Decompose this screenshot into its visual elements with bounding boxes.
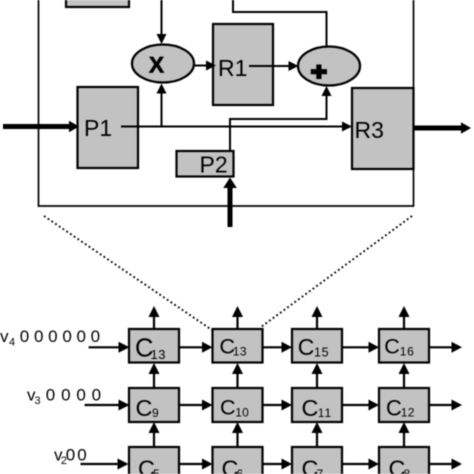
svg-text:C: C — [220, 396, 236, 420]
wire into multiplier from top — [157, 0, 167, 44]
label v4 input sequence — [0, 327, 100, 349]
label v3 input sequence — [27, 386, 102, 408]
svg-text:0: 0 — [77, 446, 86, 465]
output arrow C12 row2 — [429, 400, 462, 411]
cell C9 row2 col1 — [129, 388, 179, 422]
svg-text:0: 0 — [66, 446, 75, 465]
svg-text:12: 12 — [401, 406, 415, 420]
svg-text:P2: P2 — [200, 152, 228, 178]
svg-text:R1: R1 — [218, 55, 247, 81]
svg-text:P1: P1 — [84, 115, 112, 141]
svg-text:10: 10 — [235, 406, 249, 420]
svg-text:0 0 0 0: 0 0 0 0 — [46, 386, 102, 405]
svg-text:C: C — [136, 395, 153, 421]
register R3 — [352, 88, 414, 169]
thick arrow into P2 from below — [223, 178, 237, 228]
adder + ellipse — [298, 47, 360, 86]
wire C6 up to C10 — [232, 422, 243, 447]
svg-text:13: 13 — [233, 345, 247, 359]
wire P1 to R3 — [121, 122, 352, 132]
wire C5 to C6 row3 — [179, 459, 213, 470]
wire C10 to C11 row2 — [263, 400, 293, 411]
thick input arrow into P1 — [3, 121, 79, 133]
output arrow up from C13 col2 — [232, 306, 243, 329]
wire C7 to C8 row3 — [342, 459, 379, 470]
wire C13 to C13 row1 — [179, 342, 213, 353]
output arrow up from C16 — [399, 306, 410, 329]
wire C9 to C10 row2 — [179, 400, 213, 411]
wire C6 to C7 row3 — [263, 459, 293, 470]
small box top-left (cut off at top) — [66, 0, 129, 7]
cell C13 row1 col1 — [129, 329, 179, 363]
cell C15 row1 col3 — [292, 329, 342, 363]
wire C11 to C12 row2 — [342, 400, 379, 411]
cell C11 row2 col3 — [292, 388, 342, 422]
svg-text:8: 8 — [404, 467, 411, 474]
svg-text:C: C — [302, 395, 319, 421]
svg-text:5: 5 — [153, 467, 160, 474]
register R1 — [213, 24, 273, 105]
svg-text:C: C — [386, 396, 402, 421]
svg-text:9: 9 — [152, 406, 159, 420]
output arrow C8 row3 — [429, 459, 462, 470]
svg-text:v: v — [0, 327, 9, 346]
svg-text:3: 3 — [35, 395, 41, 407]
wire P2 up to adder bottom — [230, 86, 332, 151]
dotted expansion line left — [44, 216, 212, 330]
feedback wire from top into adder — [233, 0, 327, 47]
wire C15 to C16 row1 — [342, 342, 379, 353]
cell C6 row3 col2 — [213, 447, 263, 474]
multiplier X ellipse — [132, 45, 194, 83]
outer frame of processing element — [39, 0, 414, 206]
cell C10 row2 col2 — [213, 388, 263, 422]
output arrow up from C15 — [312, 306, 323, 329]
wire C5 up to C9 — [149, 422, 160, 447]
svg-text:C: C — [384, 335, 400, 359]
svg-text:6: 6 — [237, 467, 244, 474]
wire C11 up to C15 — [312, 363, 323, 388]
svg-text:7: 7 — [317, 467, 324, 474]
wire C10 up to C13 — [232, 363, 243, 388]
input arrow v2 row3 — [81, 459, 129, 470]
svg-text:16: 16 — [400, 345, 415, 359]
input arrow v4 row1 — [89, 342, 130, 353]
label v2 input sequence — [54, 446, 87, 468]
output arrow C16 row1 — [429, 342, 462, 353]
svg-text:X: X — [149, 52, 164, 77]
thick output arrow from R3 — [414, 122, 472, 134]
wire C13 to C15 row1 — [263, 342, 293, 353]
wire C7 up to C11 — [312, 422, 323, 447]
output arrow up from C13 col1 — [149, 306, 160, 329]
svg-text:11: 11 — [318, 406, 332, 420]
cell C7 row3 col3 — [292, 447, 342, 474]
wire C9 up to C13 — [149, 363, 160, 388]
wire multiplier to R1 — [194, 61, 216, 71]
svg-text:4: 4 — [9, 337, 15, 349]
cell C12 row2 col4 — [379, 388, 429, 422]
svg-text:15: 15 — [314, 346, 329, 360]
wire C12 up to C16 — [399, 363, 410, 388]
cell C13 row1 col2 — [213, 329, 263, 363]
svg-text:0 0 0 0 0 0: 0 0 0 0 0 0 — [20, 327, 100, 346]
svg-text:R3: R3 — [355, 117, 384, 143]
cell C8 row3 col4 — [379, 447, 429, 474]
wire C8 up to C12 — [399, 422, 410, 447]
cell C16 row1 col4 — [379, 329, 429, 363]
input arrow v3 row2 — [85, 400, 130, 411]
branch wire up into multiplier bottom — [157, 84, 167, 127]
register P2 — [177, 151, 234, 178]
wire R1 to adder — [249, 61, 299, 71]
svg-text:C: C — [298, 334, 315, 360]
cell C5 row3 col1 — [129, 447, 179, 474]
register P1 — [78, 87, 139, 168]
svg-text:13: 13 — [151, 347, 166, 362]
dotted expansion line right — [261, 216, 412, 327]
